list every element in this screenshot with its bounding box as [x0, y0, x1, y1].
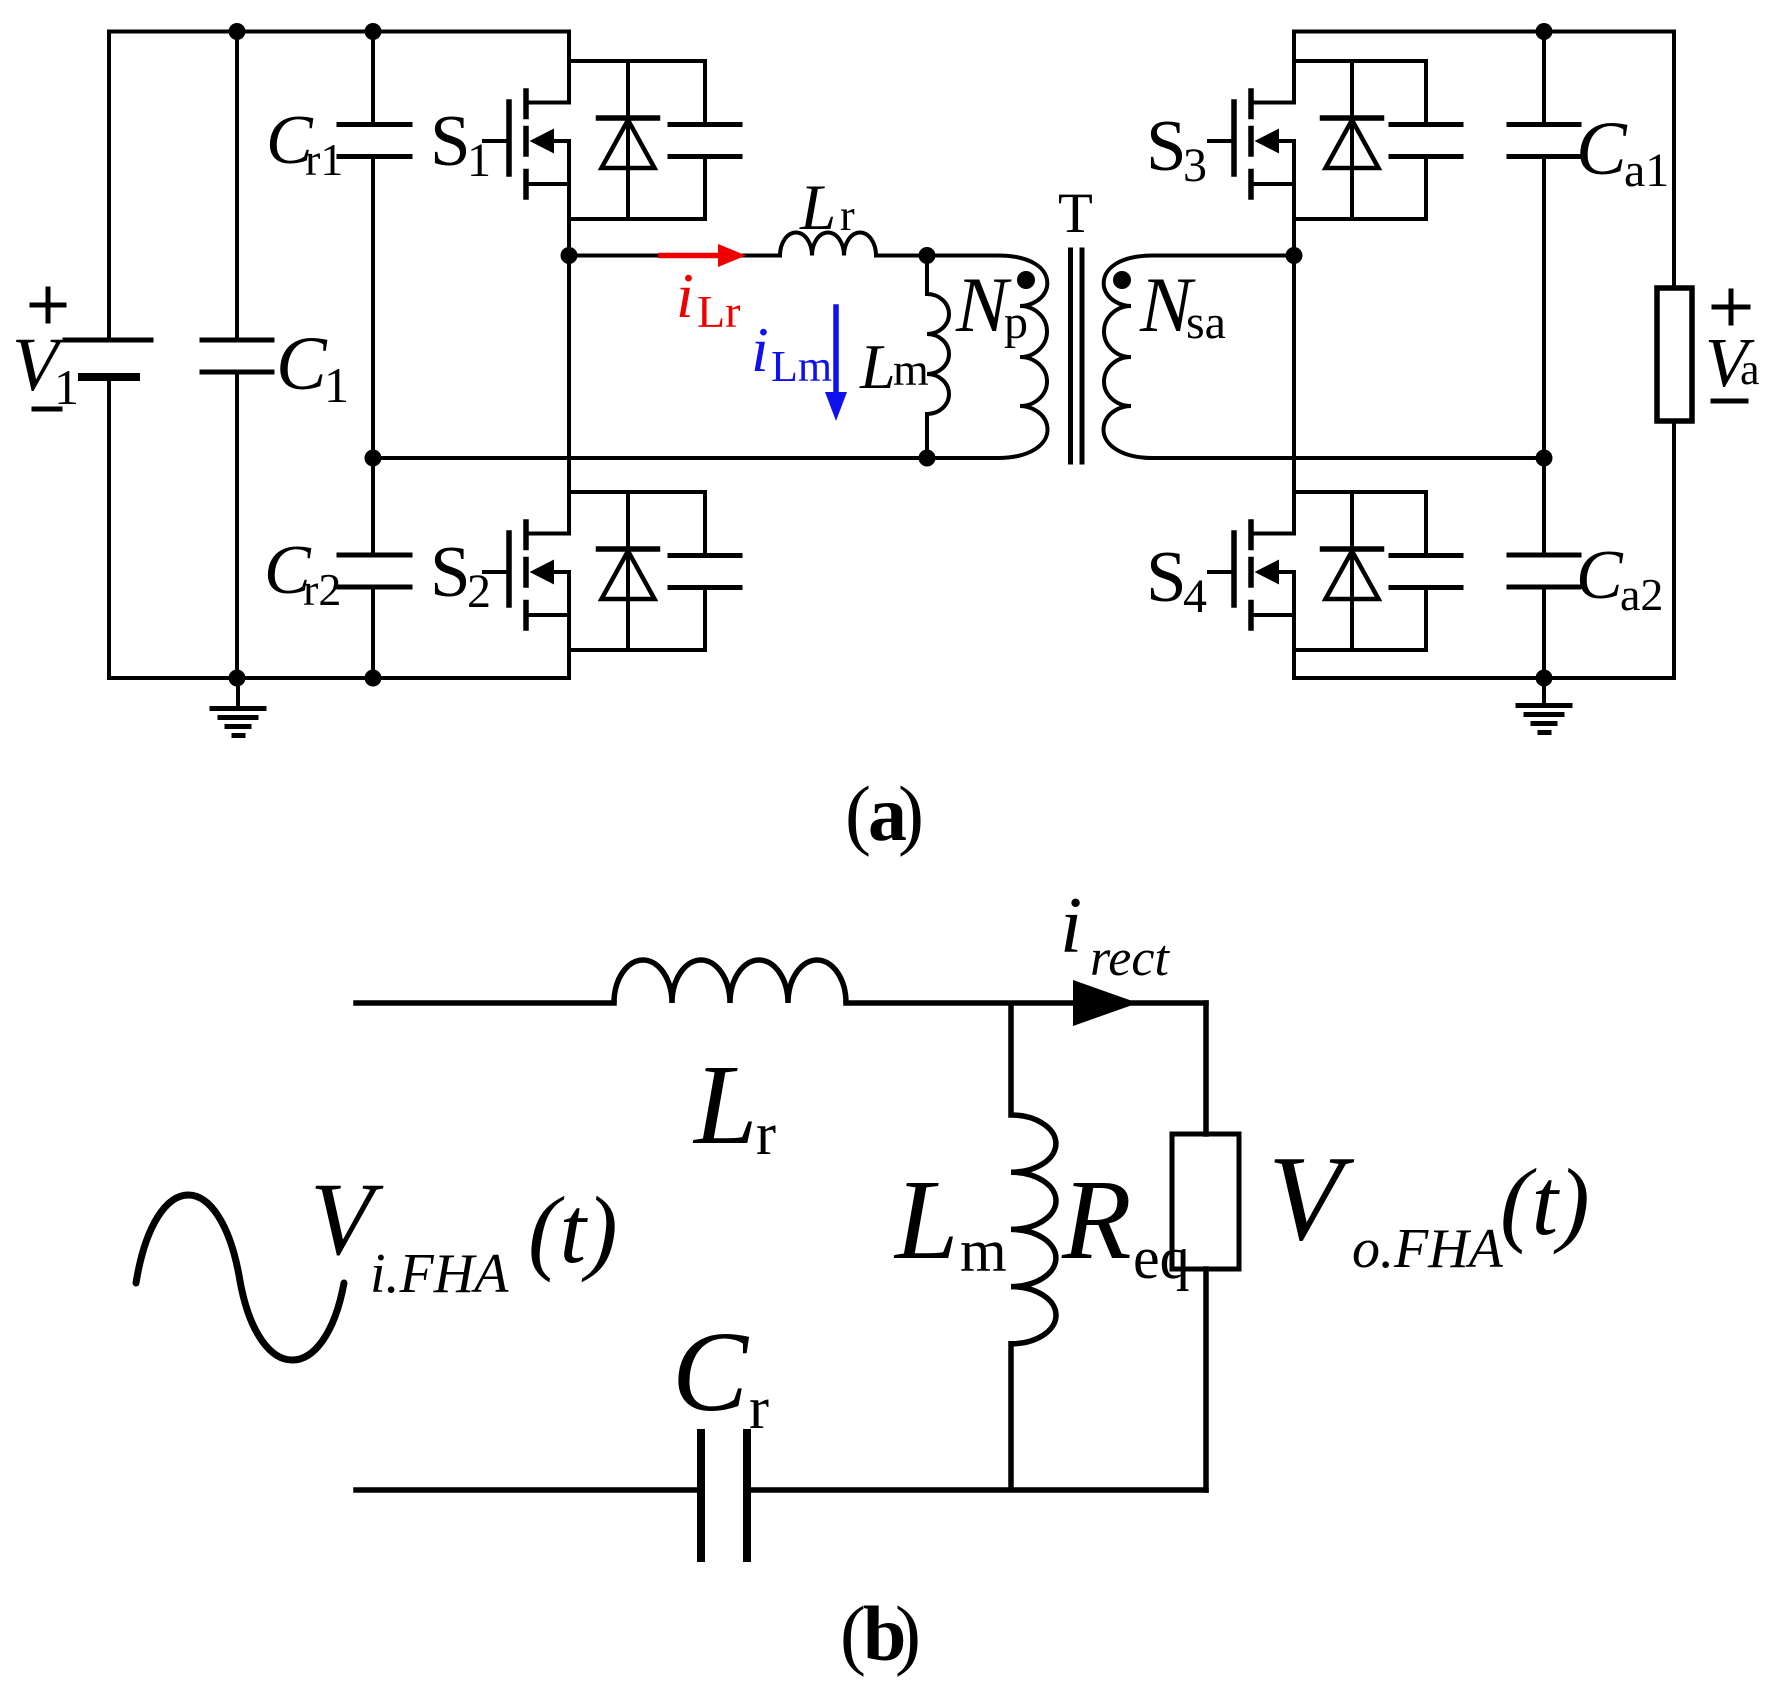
- svg-text:r2: r2: [303, 564, 341, 615]
- svg-text:r: r: [840, 191, 855, 240]
- inductor Lr: [780, 233, 876, 256]
- svg-text:a1: a1: [1624, 144, 1669, 197]
- svg-text:Lr: Lr: [697, 286, 740, 337]
- wire: S4 source vertical: [1292, 572, 1296, 678]
- label S4: [1146, 536, 1207, 623]
- svg-text:a2: a2: [1620, 569, 1663, 620]
- ground (primary side): [212, 678, 264, 736]
- diode D1 (S1 body diode): [599, 61, 658, 219]
- node: Nsa top / S3 source / S4 drain: [1286, 247, 1303, 264]
- label T: [1058, 182, 1093, 245]
- capacitor Cr1: [339, 32, 410, 459]
- label S1: [430, 100, 491, 187]
- wire: S1 source to S2 drain vertical: [567, 141, 571, 534]
- svg-text:1: 1: [467, 134, 491, 187]
- label Lr (FHA): [692, 1041, 776, 1168]
- svg-text:C: C: [1576, 107, 1628, 191]
- label Np: [955, 261, 1028, 349]
- transformer T core: [1071, 250, 1083, 462]
- capacitor Cr (FHA model): [701, 1433, 747, 1558]
- ground (secondary side): [1518, 678, 1570, 733]
- svg-text:S: S: [1146, 536, 1187, 617]
- label Lm (FHA): [893, 1156, 1007, 1284]
- svg-text:L: L: [799, 172, 836, 244]
- svg-text:a: a: [1740, 345, 1760, 394]
- svg-text:Lm: Lm: [771, 342, 832, 391]
- capacitor Cr2: [339, 458, 410, 678]
- node: mid rail / Cr midpoint: [365, 450, 382, 467]
- capacitor S3 snubber cap: [1391, 61, 1461, 219]
- svg-text:L: L: [692, 1041, 757, 1168]
- label iLr (red): [676, 260, 740, 337]
- wire: S4 snubber rails: [1294, 492, 1426, 650]
- transistor S1 (MOSFET): [484, 91, 569, 197]
- node: Np bottom / Lm bottom / mid rail: [919, 450, 936, 467]
- wire: Lr to transformer: [876, 254, 927, 258]
- svg-text:3: 3: [1183, 139, 1207, 192]
- svg-text:eq: eq: [1133, 1225, 1190, 1291]
- node: bottom rail / C1: [229, 670, 246, 687]
- label Va polarity -: [1713, 399, 1746, 404]
- capacitor Ca2: [1509, 458, 1579, 678]
- svg-text:V: V: [1268, 1131, 1355, 1266]
- svg-text:C: C: [276, 322, 328, 406]
- inductor Lm (magnetizing): [927, 256, 949, 459]
- wire: V1 branch vertical: [107, 32, 111, 679]
- node: Ca midpoint: [1536, 450, 1553, 467]
- wire: mid rail (resonant cap midpoint to transformer bottom): [373, 456, 927, 460]
- svg-text:): ): [895, 1590, 921, 1677]
- label Va polarity +: [1714, 291, 1748, 323]
- capacitor S2 snubber cap: [670, 492, 740, 650]
- wire: bottom rail left: [109, 676, 569, 680]
- svg-text:i: i: [751, 314, 769, 385]
- current arrow iLm (blue): [825, 307, 847, 421]
- current arrow i_rect: [1073, 980, 1138, 1026]
- svg-text:S: S: [1146, 105, 1187, 186]
- label Vo.FHA(t): [1268, 1131, 1590, 1280]
- wire: S2 snubber rails: [569, 492, 705, 650]
- capacitor S1 snubber cap: [670, 61, 740, 219]
- wire: Nsa bottom to Ca midpoint: [1153, 456, 1544, 460]
- svg-text:r: r: [749, 1375, 769, 1441]
- svg-text:sa: sa: [1186, 296, 1226, 349]
- battery V1 (DC source): [65, 340, 151, 377]
- label iLm (blue): [751, 314, 832, 391]
- transformer T primary winding Np: [927, 256, 1047, 459]
- diode D4 (S4 body diode): [1323, 492, 1382, 650]
- wire: S3 snubber rails: [1294, 61, 1426, 219]
- label Ca2: [1576, 537, 1663, 620]
- svg-text:(t): (t): [1500, 1149, 1590, 1255]
- label Nsa: [1139, 261, 1226, 349]
- label Cr (FHA): [672, 1308, 769, 1441]
- label S2: [430, 531, 491, 618]
- wire: top rail left: [109, 30, 569, 34]
- polarity dot Np: [1017, 271, 1035, 289]
- wire: S1 drain vertical: [567, 32, 571, 103]
- wire: FHA bottom right: [751, 1487, 1206, 1493]
- node: bottom rail / Cr2: [365, 670, 382, 687]
- svg-text:o.FHA: o.FHA: [1352, 1218, 1504, 1280]
- capacitor Ca1: [1509, 32, 1579, 459]
- label Cr1: [266, 102, 343, 185]
- svg-text:): ): [898, 770, 924, 857]
- svg-text:L: L: [893, 1156, 958, 1283]
- wire: FHA bottom left: [356, 1487, 697, 1493]
- node: top rail / Ca1: [1536, 23, 1553, 40]
- node: Lr / Np / Lm junction: [919, 247, 936, 264]
- wire: top rail right: [1294, 30, 1674, 34]
- svg-text:r: r: [756, 1101, 776, 1167]
- svg-text:m: m: [960, 1218, 1007, 1284]
- capacitor C1: [202, 32, 272, 679]
- transistor S4 (MOSFET): [1209, 522, 1294, 628]
- wire: S2 source vertical: [567, 572, 571, 678]
- wire: S3 drain vertical: [1292, 32, 1296, 103]
- inductor Lr (FHA model): [614, 960, 846, 1003]
- label Lr: [799, 172, 855, 244]
- svg-text:m: m: [893, 344, 929, 395]
- svg-text:1: 1: [324, 357, 349, 413]
- svg-text:C: C: [672, 1308, 750, 1435]
- diode D2 (S2 body diode): [599, 492, 658, 650]
- svg-text:rect: rect: [1090, 930, 1170, 987]
- label V1 polarity -: [34, 407, 60, 412]
- svg-text:S: S: [430, 531, 471, 612]
- label Cr2: [264, 532, 341, 615]
- label C1: [276, 322, 349, 413]
- svg-text:i.FHA: i.FHA: [370, 1243, 509, 1305]
- wire: S3 source to S4 drain vertical: [1292, 141, 1296, 534]
- label Req: [1061, 1156, 1190, 1291]
- capacitor S4 snubber cap: [1391, 492, 1461, 650]
- load resistor Va: [1657, 32, 1692, 679]
- polarity dot Nsa: [1113, 271, 1131, 289]
- diode D3 (S3 body diode): [1323, 61, 1382, 219]
- svg-text:p: p: [1004, 296, 1028, 349]
- wire: bottom rail right: [1294, 676, 1674, 680]
- wire: S1 snubber rails: [569, 61, 705, 219]
- wire: switch node to Lr: [569, 254, 780, 258]
- svg-text:R: R: [1061, 1156, 1132, 1283]
- label Va: [1705, 325, 1760, 402]
- label (b): [840, 1590, 921, 1677]
- transistor S3 (MOSFET): [1209, 91, 1294, 197]
- inductor Lm (FHA model): [1011, 1003, 1056, 1490]
- svg-text:2: 2: [467, 565, 491, 618]
- current arrow iLr (red): [661, 244, 746, 267]
- voltage source Vi.FHA (sine): [136, 1195, 344, 1360]
- node: bottom rail / Ca2: [1536, 670, 1553, 687]
- svg-text:S: S: [430, 100, 471, 181]
- svg-text:(t): (t): [528, 1177, 618, 1283]
- svg-text:4: 4: [1183, 570, 1207, 623]
- node: switch node (S1 source / S2 drain / Lr): [561, 247, 578, 264]
- transistor S2 (MOSFET): [484, 522, 569, 628]
- label Vi.FHA(t): [310, 1162, 618, 1305]
- svg-text:C: C: [1576, 537, 1624, 614]
- wire: FHA top right: [846, 1000, 1206, 1006]
- svg-text:r1: r1: [305, 134, 343, 185]
- svg-text:L: L: [859, 331, 896, 402]
- svg-text:T: T: [1058, 182, 1093, 245]
- label S3: [1146, 105, 1207, 192]
- label V1: [12, 323, 79, 415]
- label V1 polarity +: [32, 289, 64, 321]
- node: top rail / Cr1 junction: [365, 23, 382, 40]
- wire: FHA top left: [356, 1000, 614, 1006]
- label i_rect: [1060, 882, 1170, 987]
- label Ca1: [1576, 107, 1669, 197]
- label Lm: [859, 331, 929, 402]
- label (a): [845, 770, 924, 857]
- svg-text:i: i: [676, 260, 694, 331]
- node: top rail / C1 junction: [229, 23, 246, 40]
- svg-text:i: i: [1060, 882, 1082, 970]
- transformer T secondary winding Nsa: [1104, 256, 1294, 459]
- resistor Req: [1172, 1003, 1239, 1490]
